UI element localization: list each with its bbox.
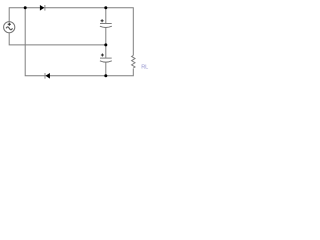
capacitor C2 top lead (105, 45, 107, 58)
svg-text:RL: RL (141, 65, 148, 71)
wire source top lead + top rail + right rail top (9, 8, 133, 56)
diode D1 triangle (40, 5, 44, 11)
capacitor C2 curved plate (100, 61, 112, 62)
diode D2 cathode bar (44, 73, 46, 79)
capacitor C2 plus (101, 54, 104, 57)
node dot top C1 (104, 6, 107, 9)
ac source plus polarity (8, 23, 11, 26)
capacitor C2 flat plate (100, 57, 112, 59)
node dot top left (24, 6, 27, 9)
capacitor C1 flat plate (100, 23, 112, 25)
wire left branch vertical + bottom rail + right rail bottom (25, 8, 133, 76)
node dot bottom (104, 74, 107, 77)
wire source bottom lead + middle rail (9, 33, 106, 45)
ac source V1 circle (4, 22, 15, 33)
capacitor C1 curved plate (100, 26, 112, 27)
capacitor C1 top lead (105, 8, 107, 24)
capacitor C1 bottom lead (105, 28, 107, 45)
diode D2 triangle (46, 73, 50, 79)
ac source sine (6, 27, 12, 30)
diode D1 cathode bar (44, 5, 46, 11)
capacitor C1 plus (101, 19, 104, 22)
resistor RL zigzag (132, 55, 135, 68)
node dot middle (104, 43, 107, 46)
capacitor C2 bottom lead (105, 62, 107, 76)
